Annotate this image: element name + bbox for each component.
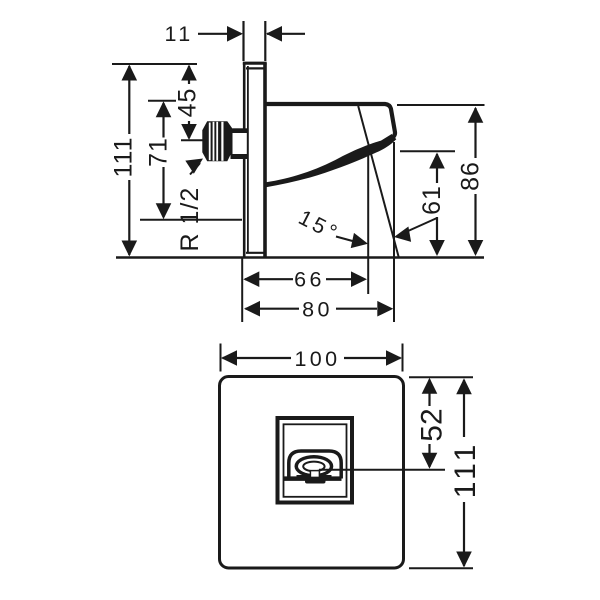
dimension 52 <box>416 378 449 469</box>
dimension 100 <box>221 344 403 372</box>
15deg tilted line <box>358 106 399 258</box>
svg-text:45: 45 <box>174 88 202 118</box>
spout front: inner outlet ellipse <box>303 462 324 472</box>
top edge and nose right edge <box>265 104 395 137</box>
dimension 111 (side view) <box>110 64 198 257</box>
svg-text:111: 111 <box>449 441 482 499</box>
wall face extension below plate <box>241 258 243 322</box>
dimension 71 <box>140 101 242 220</box>
spout front: arch <box>289 451 341 479</box>
label R 1/2 with leader <box>176 152 207 252</box>
bottom lip (tapered filled) <box>266 134 396 187</box>
wire: extension line left of plate top <box>242 21 244 61</box>
15deg reference vertical line <box>367 151 369 295</box>
neck to wall <box>231 128 248 159</box>
wall plate (front view) <box>220 377 404 569</box>
svg-text:61: 61 <box>418 185 446 215</box>
recess opening inner square <box>284 424 347 497</box>
thread slits <box>209 123 211 161</box>
long bottom reference line <box>116 256 484 259</box>
dimension 80 <box>244 298 393 322</box>
dimension 45 <box>174 65 204 141</box>
svg-text:86: 86 <box>457 161 485 191</box>
threaded connector R1/2 (side view) <box>202 121 247 161</box>
spout front: bottom band <box>284 476 342 481</box>
hex nut body <box>202 121 232 161</box>
dimension 111 (front view) <box>449 378 482 567</box>
spout body (side view) <box>265 104 396 187</box>
svg-text:100: 100 <box>294 347 340 371</box>
front top tick <box>409 376 473 378</box>
wire: extension line right of plate top <box>264 21 266 61</box>
52 bottom tick through outlet center <box>319 469 445 471</box>
svg-text:111: 111 <box>110 136 138 177</box>
spout front: white connector box <box>310 471 319 478</box>
svg-text:71: 71 <box>145 137 173 167</box>
extension line at nose front <box>393 142 395 322</box>
wall plate (side view) <box>243 63 267 258</box>
dimension 66 <box>243 268 367 292</box>
dimension 11 <box>164 22 305 46</box>
spout front: lip <box>305 477 326 484</box>
svg-text:80: 80 <box>302 298 333 322</box>
svg-text:R 1/2: R 1/2 <box>176 187 204 252</box>
front bottom tick <box>409 567 473 569</box>
dimension 86 <box>397 105 485 256</box>
spout front: outlet ring interior <box>298 458 330 474</box>
svg-text:11: 11 <box>164 22 193 46</box>
svg-text:66: 66 <box>294 268 325 292</box>
recess opening outer square <box>278 418 353 503</box>
dimension 61 <box>400 151 455 256</box>
15 degree annotation <box>295 205 437 251</box>
spout front: dark area below outlet <box>295 455 334 477</box>
svg-text:52: 52 <box>416 408 449 441</box>
